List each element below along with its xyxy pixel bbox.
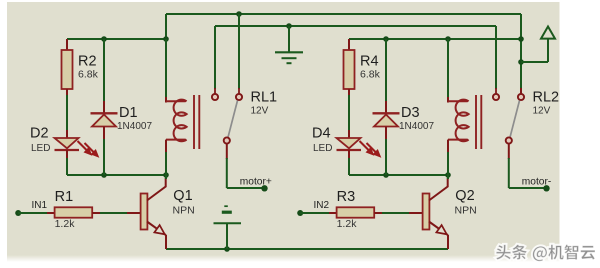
svg-text:D2: D2 xyxy=(30,126,49,142)
svg-text:Q2: Q2 xyxy=(455,188,474,204)
svg-text:6.8k: 6.8k xyxy=(360,69,381,81)
svg-text:R3: R3 xyxy=(337,189,356,205)
svg-text:IN2: IN2 xyxy=(314,200,330,211)
svg-text:1N4007: 1N4007 xyxy=(117,121,152,132)
svg-text:1.2k: 1.2k xyxy=(337,218,358,230)
svg-text:R1: R1 xyxy=(55,189,74,205)
svg-text:R4: R4 xyxy=(360,54,379,70)
svg-text:1.2k: 1.2k xyxy=(55,218,76,230)
svg-text:1N4007: 1N4007 xyxy=(399,121,434,132)
svg-text:RL2: RL2 xyxy=(533,90,560,106)
svg-text:motor+: motor+ xyxy=(240,177,272,188)
svg-text:D4: D4 xyxy=(312,126,331,142)
svg-text:12V: 12V xyxy=(251,106,269,117)
svg-text:NPN: NPN xyxy=(173,205,195,217)
svg-text:Q1: Q1 xyxy=(173,188,192,204)
svg-text:NPN: NPN xyxy=(455,205,477,217)
svg-text:motor-: motor- xyxy=(522,177,551,188)
svg-text:12V: 12V xyxy=(533,106,551,117)
svg-text:IN1: IN1 xyxy=(32,200,48,211)
svg-text:D1: D1 xyxy=(119,105,138,121)
svg-text:R2: R2 xyxy=(78,54,97,70)
svg-text:D3: D3 xyxy=(401,105,420,121)
svg-text:LED: LED xyxy=(313,143,332,154)
svg-text:LED: LED xyxy=(31,143,50,154)
svg-text:RL1: RL1 xyxy=(251,90,278,106)
svg-text:6.8k: 6.8k xyxy=(78,69,99,81)
